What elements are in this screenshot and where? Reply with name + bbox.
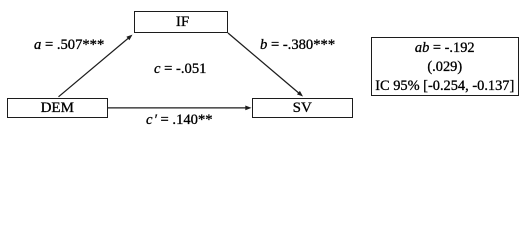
node SV: [252, 98, 353, 119]
wire a: DEM to IF: [59, 35, 133, 97]
wire b: IF to SV: [228, 33, 303, 97]
node DEM: [7, 98, 108, 119]
label c' = .140**: [146, 112, 213, 129]
label c = -.051: [154, 61, 206, 78]
wire arrows: [0, 0, 526, 127]
wire c': DEM to SV: [108, 106, 252, 111]
node IF: [134, 11, 228, 33]
stats box ab: [371, 37, 519, 97]
label b = -.380***: [260, 37, 335, 54]
label a = .507***: [34, 37, 104, 54]
